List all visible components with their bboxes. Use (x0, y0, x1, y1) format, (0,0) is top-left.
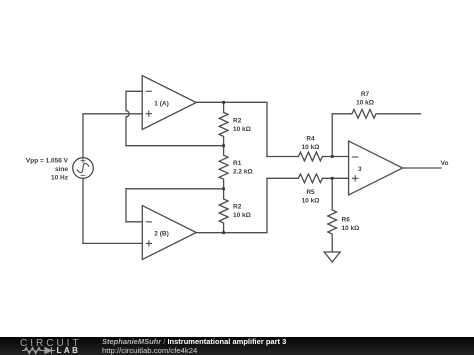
opamp3 minus glyph (353, 156, 358, 158)
resistor R5 (267, 174, 332, 183)
wire feedback1 horizontal to node B (126, 145, 224, 147)
opamp1 plus glyph (146, 111, 151, 116)
resistor R2 (bottom) (219, 189, 228, 233)
svg-text:10 kΩ: 10 kΩ (302, 198, 320, 205)
opamp2 plus glyph (146, 241, 151, 246)
opamp3 plus glyph (353, 176, 358, 181)
source minus sign (81, 174, 85, 176)
wire source top to opamp1 plus (83, 114, 142, 158)
resistor R6 (328, 178, 337, 252)
wire opamp2 minus stub (126, 221, 142, 223)
wire feedback2 vertical (125, 189, 127, 222)
svg-text:R2: R2 (233, 204, 242, 211)
wire opamp1 minus stub (126, 90, 142, 92)
wire opamp1 output to right corner (196, 102, 267, 156)
svg-text:1 (A): 1 (A) (154, 101, 168, 108)
node F opamp3 plus (331, 177, 334, 180)
svg-text:R1: R1 (233, 160, 242, 167)
node B R2/R1 (222, 144, 225, 147)
wire opamp2 output to right corner up to R5 (196, 178, 267, 232)
opamp2 minus glyph (146, 221, 151, 223)
node E opamp3 minus (331, 155, 334, 158)
node C R1/R2b (222, 187, 225, 190)
svg-text:R4: R4 (306, 136, 315, 143)
svg-text:10 kΩ: 10 kΩ (356, 99, 374, 106)
wire node E to opamp3 plus (332, 177, 348, 179)
wire feedback1 vertical with hop (126, 91, 129, 145)
op-amp U3 (3) (349, 141, 403, 195)
svg-text:10 kΩ: 10 kΩ (233, 126, 251, 133)
svg-text:3: 3 (358, 166, 362, 173)
svg-text:Vpp = 1.056 V: Vpp = 1.056 V (26, 158, 69, 165)
svg-text:2.2 kΩ: 2.2 kΩ (233, 169, 253, 176)
wire feedback2 horizontal to node C (126, 188, 224, 190)
resistor R1 (219, 146, 228, 189)
svg-text:10 kΩ: 10 kΩ (302, 144, 320, 151)
node D opamp2 out (222, 231, 225, 234)
svg-text:R6: R6 (342, 217, 351, 224)
source plus sign (81, 159, 85, 163)
wire source bottom to opamp2 plus (83, 178, 142, 243)
CircuitLab logo (20, 337, 100, 355)
op-amp U1 (1 (A)) (142, 76, 196, 130)
resistor R2 (top) (219, 102, 228, 145)
resistor R7 (332, 109, 420, 118)
wire R7 branch vertical (331, 114, 333, 157)
svg-text:sine: sine (55, 166, 68, 173)
voltage source V1 (73, 158, 94, 179)
footer bar (0, 337, 474, 355)
wire opamp3 output to Vo (403, 167, 441, 169)
svg-text:R7: R7 (361, 91, 370, 98)
svg-text:2 (B): 2 (B) (154, 231, 168, 238)
wire node D to opamp3 minus (332, 156, 348, 158)
ground (324, 252, 340, 262)
sine symbol (76, 163, 90, 174)
svg-text:Vo: Vo (441, 160, 449, 167)
node A opamp1 out (222, 101, 225, 104)
svg-text:10 Hz: 10 Hz (51, 175, 69, 182)
opamp1 minus glyph (146, 90, 151, 92)
svg-text:R5: R5 (306, 189, 315, 196)
resistor R4 (267, 152, 332, 161)
svg-text:10 kΩ: 10 kΩ (342, 225, 360, 232)
op-amp U2 (2 (B)) (142, 206, 196, 260)
svg-text:10 kΩ: 10 kΩ (233, 212, 251, 219)
credit text (102, 338, 286, 355)
svg-text:R2: R2 (233, 118, 242, 125)
